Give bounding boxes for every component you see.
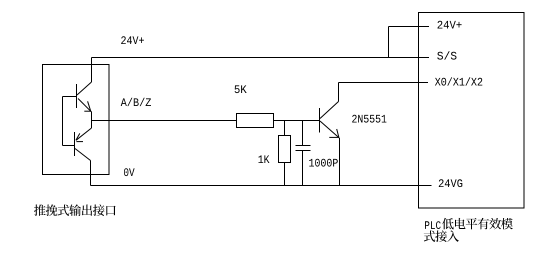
caption 式接入: [424, 230, 459, 242]
wire 5K to base of 2N5551: [274, 120, 320, 122]
label terminal 24VG: [439, 179, 463, 187]
label terminal 24V+: [438, 21, 462, 29]
wire 2N5551 emitter drop to rail: [339, 138, 341, 186]
label A/B/Z: [121, 98, 151, 106]
label 2N5551: [352, 115, 386, 123]
label 0V: [124, 168, 135, 176]
resistor 5K: [237, 114, 274, 128]
wire base bus of push-pull pair: [62, 97, 64, 146]
label 24V+ (left rail): [121, 36, 144, 44]
resistor 1K: [279, 136, 291, 163]
wire 1K bottom lead: [284, 163, 286, 186]
wire A/B/Z horizontal: [92, 120, 237, 122]
node A/B/Z output vertical: [91, 112, 93, 129]
label 5K: [235, 85, 247, 93]
wire lower collector drop to 0V: [90, 161, 92, 186]
wire 24V+ rail to S/S terminal: [92, 57, 430, 59]
wire 2N5551 collector up to X0/X1/X2 terminal: [338, 83, 340, 102]
label PLC (caption prefix): [425, 221, 441, 229]
PLC module box: [419, 13, 525, 209]
label 1000P: [309, 159, 338, 167]
capacitor 1000P bottom lead: [302, 151, 304, 186]
caption 低电平有效模 (PLC active-low mode): [442, 218, 513, 230]
capacitor 1000P plates: [296, 145, 311, 147]
wire 0V / 24VG bottom rail: [91, 185, 432, 187]
label terminal X0/X1/X2: [435, 77, 482, 85]
capacitor 1000P top lead: [302, 121, 304, 146]
wire upper collector drop from rail: [91, 58, 93, 83]
transistor upper NPN of push-pull pair: [76, 84, 78, 108]
label 1K: [259, 155, 270, 163]
label terminal S/S: [437, 51, 456, 59]
transistor Q1 2N5551: [319, 108, 321, 133]
caption 推挽式输出接口: [34, 204, 116, 216]
transistor lower PNP of push-pull pair: [74, 132, 76, 156]
wire branch up to 24V+ terminal: [388, 27, 390, 58]
wire 1K top lead: [284, 121, 286, 136]
push-pull output interface box: [43, 65, 110, 175]
